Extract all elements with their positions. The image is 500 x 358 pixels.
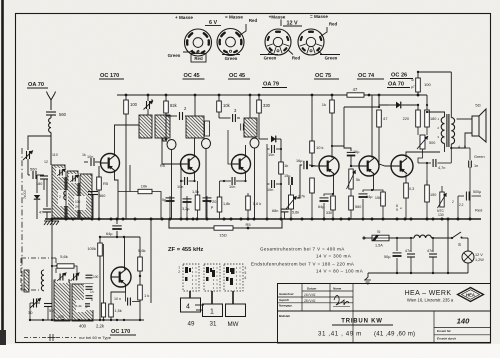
junction top rail [331,94,334,97]
coil antenna [49,118,51,132]
junction ground rail [122,218,125,221]
resistor 1k detector [279,162,284,174]
junction ground rail [81,218,84,221]
wire OC74 emitter [372,174,374,191]
resistor 82k [165,95,167,101]
wire secondary to speaker [457,118,473,120]
electrolytic 64u OC75 [324,194,333,196]
wire RF block channel 1 [65,171,67,219]
padder caps column [84,284,94,310]
junction ground rail [323,218,326,221]
junction top right [417,94,420,97]
wire y105 diode line [379,105,395,107]
ferrite antenna coil 60m [22,291,56,293]
title block outer [278,284,491,344]
switch box 1 [203,304,223,317]
battery socket 6V minus-Masse [217,29,244,56]
junction top rail [368,94,371,97]
wire OC74 collector [371,95,373,158]
diode OA70 agc [36,175,38,193]
output transformer primary winding [427,112,445,117]
capacitor 68n [283,206,285,208]
junction ground rail [247,218,250,221]
wire cap3 to OC45-2 base [235,117,237,119]
junction ground rail [469,218,472,221]
junction top rail [165,94,168,97]
IF transformer 3 [244,118,257,137]
transistor OC170 oscillator [111,267,131,287]
capacitor 50 [47,298,49,303]
top supply rail [117,94,347,96]
dash-dot boundary 60m [21,148,23,292]
junction top rail [417,94,420,97]
junction ground rail [371,218,374,221]
legend nur bei 60m [24,337,47,339]
junction ground rail [290,218,293,221]
junction ground rail [186,218,189,221]
filter choke [414,235,431,238]
capacitor 10n mixer base [84,161,88,163]
junction ground rail [432,218,435,221]
wire top y72 [418,71,451,73]
resistor 15k [372,190,383,192]
junction ground rail [161,218,164,221]
resistor 1.5k osc emitter [109,304,114,317]
resistor 47 inline top rail [347,93,364,97]
wire OC45-1 collector [194,138,196,157]
trimmer RF 2 [69,174,80,183]
resistor 180 [426,95,428,110]
wire 1k down [280,174,282,219]
junction ground rail [65,218,68,221]
wire y107 coupling line [332,106,344,108]
transistor OC26 output [391,155,413,177]
dial lamp 12V [462,251,474,263]
resistor 5.6k osc collector [139,237,141,257]
pot 500 regulator [420,135,425,149]
band switch block 31m [204,264,220,291]
RF band filter block strip 2 [67,171,78,218]
junction ground rail [426,218,429,221]
wire osc collector to 5.6k [128,275,140,277]
dash-dot box 60m coil [21,257,56,259]
capacitor 180 [40,175,48,177]
pot 5k feedback [349,169,353,189]
speaker [472,116,479,136]
scan edge strip [1,0,4,345]
wire loop3 to diode [259,138,268,140]
volume pot 5.6k [289,195,294,209]
wire OC75 collector to OC74 base [332,146,351,151]
wire T3 top [249,95,251,118]
resistor 47 OC26 base [377,110,382,127]
osc supply line [100,236,140,238]
IF transformer 1 secondary [155,115,170,138]
resistor 220 [417,105,419,110]
transistor OC45 second IF [232,155,251,174]
electrolytic 64u OC74 [363,190,372,192]
trimmer osc 2 [70,272,81,283]
resistor 100 top right [417,72,419,78]
junction ground rail [410,218,413,221]
junction ground rail [382,218,385,221]
coupling loop 1 [167,140,176,150]
wire coil to switch [431,237,452,239]
wire OC26 emitter resistor 0.3 [405,175,407,184]
capacitor 560 antenna [46,111,56,113]
wire rail to 47 resistor [378,95,380,107]
wire detector node [280,139,282,162]
resistor 1.8k [219,181,221,197]
junction ground rail [348,218,351,221]
capacitor 560 emitter [98,190,100,219]
capacitor 560 agc [28,174,30,176]
junction top rail [311,94,314,97]
wire left vertical [51,219,53,266]
junction top rail [125,94,128,97]
junction ground rail [266,218,269,221]
oscillator coil block strip 2 [72,284,93,321]
coupling loop 2 [202,139,211,149]
wire avc parallel [103,244,105,303]
coil cutout RF [58,190,68,206]
capacitor 47n b [432,238,434,252]
junction ground rail [230,218,233,221]
wire y107 from 1k [344,106,379,108]
capacitor 3 coupling [219,117,231,119]
wire rail to supply [447,219,449,273]
ground rail [45,218,481,220]
junction ground rail [332,218,335,221]
output transformer secondary winding [450,112,452,118]
oscillator coil block strip 1 [54,280,70,321]
capacitor 47 [46,179,48,207]
signature [334,295,349,305]
junction ground rail [206,218,209,221]
fuse Si 1.5A [363,237,372,239]
junction ground rail [51,218,54,221]
junction ground rail [180,218,183,221]
wire OC45-2 collector [245,145,247,157]
wire OC26 collector [406,152,440,158]
paper grain [0,0,1,1]
capacitor 10n detector a [267,148,270,150]
transistor OC170 mixer [101,154,120,173]
resistor 10k IF2 [218,95,220,101]
switch box 4 [181,298,201,312]
transformer core [446,114,448,147]
wire feed right [150,219,152,303]
osc ground rail [30,319,144,321]
resistor 150 [426,163,428,185]
resistor 1.5k [197,181,199,195]
capacitor 10n detector b [267,183,270,185]
junction ground rail [150,218,153,221]
chassis hook [365,273,368,280]
capacitor 10n osc [125,292,127,299]
capacitor 4.7n [405,162,407,164]
electrolytic 64u osc supply [116,219,118,224]
wire osc collector [124,237,126,270]
wire OC170 collector [115,125,140,156]
wire RF block channel 2 [78,175,80,219]
junction ground rail [192,218,195,221]
wire OC75 collector with resistor 1k [331,95,333,100]
junction ground rail [362,218,365,221]
electrolytic 3.2u [186,196,188,219]
label Red socket1 box [191,54,206,63]
wire OC170 emitter [115,171,119,220]
IF transformer 1 primary [139,115,152,138]
electrolytic 320u [206,196,208,219]
switch stem MW [232,291,234,304]
capacitor 50u supply [396,238,398,251]
wire antenna branch [28,136,51,150]
diode OA70 bias [358,104,395,106]
wire 82k to cap [166,113,172,116]
title block grid [278,310,491,312]
resistor 5.6k IF [247,193,249,196]
junction ground rail [91,218,94,221]
resistor 330 [258,95,260,100]
electrolytic 5u [169,196,171,219]
battery socket 12V minus-Masse [298,29,324,55]
junction top rail [249,94,252,97]
NTC 130 [441,190,443,196]
band switch block 49m [183,264,199,291]
cutout 1.2k [76,300,85,312]
switch stem 49 [189,291,191,298]
wire 47 to OC26 base [379,127,391,166]
battery socket 6V plus-Masse [185,29,212,56]
junction ground rail [134,218,137,221]
junction ground rail [280,218,283,221]
wire T2 top [194,95,196,116]
wire supply minus rail [368,272,468,274]
electrolytic 500u [458,195,464,197]
electrolytic 16u OC74 base [347,151,356,153]
resistor 10k horizontal [118,191,138,193]
junction top rail [147,94,150,97]
capacitor 47n a [410,238,412,252]
trimmer osc 1 [56,272,68,283]
battery socket 12V plus-Masse [265,29,291,55]
trimmer RF 1 [56,168,67,177]
wire OC26 collector up [450,72,452,112]
junction ground rail [116,218,119,221]
switch box MW [226,304,246,317]
junction ground rail [340,218,343,221]
wire to lamp [467,238,469,251]
ground symbol RF block [44,221,47,225]
resistor 100k [99,237,101,243]
junction top rail [378,94,381,97]
sheet number 140 [433,311,435,343]
coupling loop 3 [250,138,259,148]
transistor OC74 driver [359,156,379,176]
capacitor 2 coupling [165,130,167,139]
junction top rail [218,94,221,97]
transistor OC45 first IF [181,155,200,174]
wire T1 to OC45 base [162,138,181,164]
junction top rail [258,94,261,97]
wire fuse to coil [389,237,414,239]
resistor 1k osc [139,271,141,285]
electrolytic 16u AF coupling [297,180,300,196]
resistor R5 emitter [98,166,100,177]
trimmer antenna [26,151,28,159]
wire osc base [93,276,111,278]
junction ground rail [404,218,407,221]
junction ground rail [253,218,256,221]
resistor 5.6k horizontal osc [52,265,57,267]
junction ground rail [98,218,101,221]
resistor 2.2k [101,303,105,317]
junction top rail [194,94,197,97]
junction ground rail [441,218,444,221]
band switch block MW [224,264,243,291]
supply vertical with resistor 100 [125,95,127,100]
junction ground rail [240,218,243,221]
junction ground rail [169,218,172,221]
resistor 560 OC74 [350,189,352,196]
trimmer 30 [29,292,31,298]
switch stem 31 [211,291,213,304]
junction ground rail [301,218,304,221]
resistor 330 OC75 emitter [332,194,334,196]
wire OC45-2 emitter [245,172,247,182]
wire emitter bias vertical [129,165,131,192]
junction ground rail [196,218,199,221]
junction ground rail [72,218,75,221]
diode OA79 detector [271,136,276,143]
junction ground rail [457,218,460,221]
resistor 10k OC75 base [311,95,313,141]
trimmer 5 [147,95,149,101]
capacitor 10n OC45-2 [224,180,231,182]
junction ground rail [311,218,314,221]
junction ground rail [110,218,113,221]
antenna [48,94,55,100]
capacitor 1n [465,147,470,149]
junction ground rail [447,218,450,221]
wire OC45-1 emitter [194,172,196,182]
RF band filter block strip 3 [80,174,92,218]
wire OC75 emitter [332,174,335,195]
capacitor 10n OC45-1 [180,164,182,181]
transistor OC75 AF preamp [319,156,339,176]
electrolytic 15u [289,176,291,184]
RF band filter block strip 1 [52,165,65,218]
wire 10k to rail [152,192,161,220]
bypass rail with R 15ohm [169,219,214,228]
IF transformer 2 [186,116,204,138]
resistor 2.7k [311,166,313,178]
junction ground rail [396,218,399,221]
switch S [452,232,461,238]
junction ground rail [223,218,226,221]
wire osc emitter [111,285,126,305]
HEA logo diamond [458,288,484,302]
